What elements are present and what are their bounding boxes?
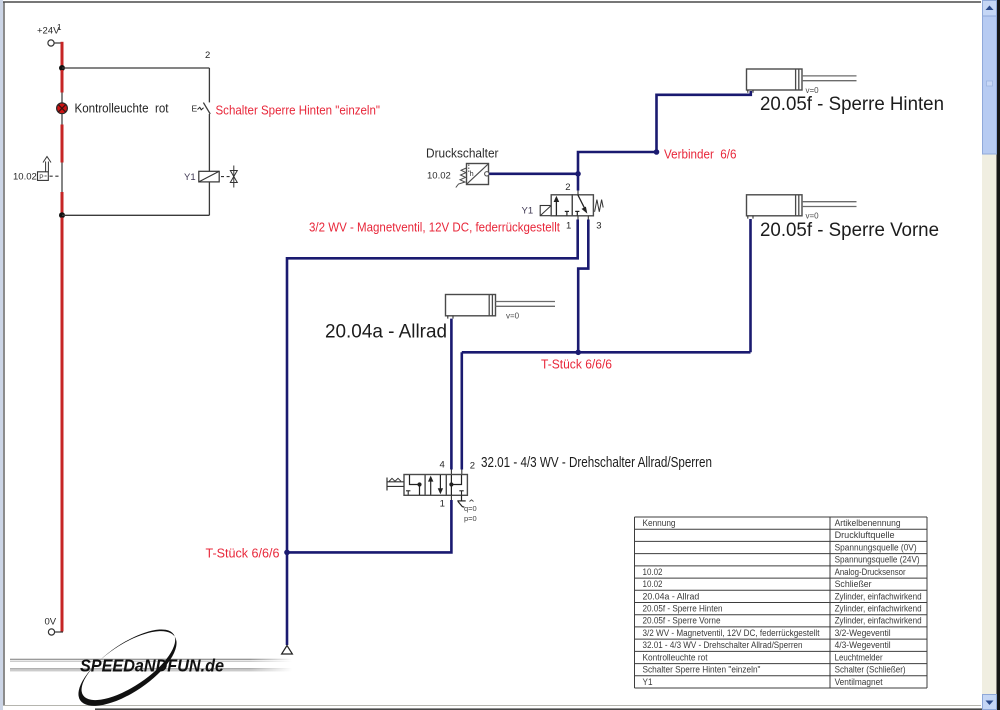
svg-text:Schalter Sperre Hinten "einzel: Schalter Sperre Hinten "einzeln"	[643, 665, 761, 675]
lamp Kontrolleuchte rot	[57, 103, 68, 114]
wire branch vertical upper	[208, 68, 210, 102]
port stub valve43 top4	[450, 470, 452, 475]
wire pneumatic valve port2 up to Verbinder	[578, 152, 657, 191]
svg-text:32.01 - 4/3 WV - Drehschalter: 32.01 - 4/3 WV - Drehschalter Allrad/Spe…	[481, 455, 712, 471]
wire pneumatic valve port3 jog down	[578, 220, 588, 353]
svg-text:Artikelbenennung: Artikelbenennung	[835, 518, 901, 528]
wire pneumatic T-Stueck lower down to exhaust	[286, 552, 289, 645]
svg-text:2: 2	[470, 461, 475, 472]
svg-text:Spannungsquelle (24V): Spannungsquelle (24V)	[835, 555, 920, 565]
svg-text:3/2-Wegeventil: 3/2-Wegeventil	[835, 628, 891, 638]
wire branch vertical lower	[208, 182, 210, 215]
scrollbar track	[982, 0, 997, 710]
wire pneumatic T-Stueck down to valve43 port2	[460, 352, 463, 469]
svg-text:v=0: v=0	[506, 312, 520, 321]
wire pneumatic Verbinder to cylinder Hinten	[657, 91, 751, 152]
svg-text:3/2 WV - Magnetventil, 12V DC,: 3/2 WV - Magnetventil, 12V DC, federrück…	[643, 628, 821, 638]
svg-text:P: P	[39, 174, 43, 181]
logo horizontal line lower	[10, 668, 292, 671]
wire black lamp lead lower	[61, 114, 63, 125]
scrollbar down button	[983, 695, 997, 710]
node T-Stueck 6/6/6 junction dot upper	[575, 350, 581, 356]
wire pneumatic valve43 port1 to T-Stueck lower	[288, 500, 451, 552]
svg-text:20.04a - Allrad: 20.04a - Allrad	[325, 322, 447, 343]
cylinder Vorne piston	[795, 195, 797, 216]
window left edge strip	[0, 0, 3, 710]
svg-text:Y1: Y1	[643, 677, 653, 687]
node junction dot bottom	[59, 212, 65, 218]
pressure switch output port	[485, 172, 489, 176]
svg-text:Schließer: Schließer	[835, 579, 872, 589]
svg-text:3: 3	[596, 221, 601, 232]
wire red supply rail segment 1	[61, 42, 64, 66]
pressure switch 10.02 body	[467, 164, 489, 185]
frame top border	[3, 1, 981, 3]
node T-Stueck 6/6/6 junction dot lower	[284, 550, 290, 556]
svg-text:20.04a - Allrad: 20.04a - Allrad	[643, 591, 700, 601]
parts table grid	[635, 517, 928, 688]
svg-text:Kennung: Kennung	[643, 518, 676, 528]
relay Y1 valve link symbol	[233, 166, 235, 188]
valve 3/2 solenoid box	[540, 206, 551, 216]
valve 4/3 blocked port3 below	[461, 495, 463, 500]
node Verbinder junction dot	[654, 149, 660, 155]
port stub valve43 top2	[461, 470, 463, 475]
svg-text:1: 1	[57, 23, 62, 32]
svg-text:Druckschalter: Druckschalter	[426, 147, 499, 161]
terminal circle 0V	[48, 629, 54, 635]
wire terminal 0V to rail	[55, 631, 63, 633]
cylinder Allrad piston	[488, 295, 490, 316]
svg-text:Kontrolleuchte rot: Kontrolleuchte rot	[75, 102, 169, 116]
scrollbar right dark edge	[997, 0, 1000, 710]
svg-text:10.02: 10.02	[13, 172, 37, 183]
valve 3/2 body right box	[572, 195, 593, 216]
valve 3/2 right box blocked port T	[575, 210, 579, 212]
valve 3/2 left box blocked port T	[565, 210, 569, 212]
pressure switch spring	[456, 168, 467, 188]
svg-text:2: 2	[565, 182, 570, 193]
node junction dot top	[59, 65, 65, 71]
wire pneumatic valve port1 down-left to T-Stueck	[287, 220, 578, 552]
frame left border	[3, 2, 5, 705]
terminal circle +24V	[48, 40, 54, 46]
wire red supply rail segment 5	[61, 218, 64, 632]
wire branch top horizontal	[62, 67, 209, 69]
wire pneumatic T-Stueck horizontal	[462, 351, 751, 354]
wire red supply rail segment 4	[61, 192, 64, 213]
valve 3/2 right box diagonal passage	[578, 195, 585, 208]
cylinder 20.05f Sperre Hinten body	[747, 69, 803, 90]
svg-text:Zylinder, einfachwirkend: Zylinder, einfachwirkend	[835, 616, 922, 626]
relay Y1 dashed link	[221, 176, 231, 178]
valve 4/3 middle cell up arrow	[430, 480, 432, 495]
wire branch vertical middle	[208, 114, 210, 171]
contact 10.02 box	[38, 172, 49, 181]
svg-text:Spannungsquelle (0V): Spannungsquelle (0V)	[835, 542, 917, 552]
wire black contact region	[61, 163, 63, 193]
svg-text:Druckluftquelle: Druckluftquelle	[835, 530, 895, 540]
valve 4/3 left cell blocked T	[406, 490, 410, 492]
svg-text:4: 4	[440, 460, 445, 471]
port stub valve 3/2 bottom 1	[577, 216, 579, 220]
svg-text:E: E	[192, 104, 198, 114]
valve 3/2 body left box	[551, 195, 572, 216]
valve 4/3 body	[404, 475, 467, 496]
svg-text:10.02: 10.02	[643, 579, 663, 589]
cylinder Hinten rod	[802, 75, 857, 77]
svg-text:10.02: 10.02	[643, 567, 663, 577]
cylinder 20.04a Allrad body	[446, 295, 496, 316]
parts table text	[643, 518, 922, 687]
svg-text:Ventilmagnet: Ventilmagnet	[835, 677, 884, 687]
port stub valve 3/2 top	[577, 191, 579, 195]
svg-text:2: 2	[205, 50, 210, 61]
valve 4/3 middle cell down arrow	[439, 475, 441, 490]
port stub valve43 bottom1	[450, 495, 452, 500]
svg-text:20.05f - Sperre Hinten: 20.05f - Sperre Hinten	[643, 604, 723, 614]
valve 4/3 state cursor mark	[458, 502, 464, 508]
valve 3/2 return spring	[595, 200, 604, 212]
scrollbar thumb	[983, 16, 997, 154]
wire black lamp lead upper	[61, 93, 63, 104]
svg-text:0V: 0V	[45, 617, 57, 628]
cylinder Allrad rod	[496, 301, 556, 303]
svg-text:v=0: v=0	[806, 211, 820, 220]
svg-text:Kontrolleuchte rot: Kontrolleuchte rot	[643, 652, 709, 662]
cylinder Vorne port stub	[748, 216, 753, 219]
svg-text:Analog-Drucksensor: Analog-Drucksensor	[835, 567, 906, 577]
svg-text:T-Stück 6/6/6: T-Stück 6/6/6	[541, 358, 612, 372]
svg-text:10.02: 10.02	[427, 171, 451, 182]
svg-text:Leuchtmelder: Leuchtmelder	[835, 652, 883, 662]
wire red supply rail segment 3	[61, 125, 64, 163]
svg-text:p=0: p=0	[464, 514, 477, 523]
svg-text:1: 1	[440, 499, 445, 510]
relay Y1 coil box	[199, 171, 219, 182]
svg-text:Verbinder 6/6: Verbinder 6/6	[664, 147, 737, 161]
switch Schalter Sperre Hinten blade	[203, 103, 210, 114]
scrollbar up button	[983, 1, 997, 17]
cylinder Allrad port stub	[448, 316, 453, 319]
svg-text:T-Stück 6/6/6: T-Stück 6/6/6	[206, 547, 280, 561]
wire pneumatic cylinder Allrad down to valve43 port4	[450, 319, 453, 470]
svg-text:20.05f - Sperre Hinten: 20.05f - Sperre Hinten	[760, 94, 944, 115]
contact 10.02 dashed link	[50, 175, 62, 177]
wire red supply rail segment 2	[61, 70, 64, 93]
cylinder 20.05f Sperre Vorne body	[747, 195, 803, 216]
wire pneumatic T-Stueck up to cylinder Vorne	[749, 219, 752, 352]
window bottom dark line	[95, 708, 996, 710]
contact 10.02 arrow up	[46, 162, 49, 172]
wire pneumatic pressure switch to valve	[489, 173, 578, 176]
valve 4/3 left cell passage	[410, 475, 420, 495]
svg-text:20.05f - Sperre Vorne: 20.05f - Sperre Vorne	[643, 616, 721, 626]
svg-text:Zylinder, einfachwirkend: Zylinder, einfachwirkend	[835, 591, 922, 601]
valve 4/3 hand lever	[386, 478, 388, 491]
wire terminal to supply rail	[54, 42, 62, 44]
svg-text:Y1: Y1	[522, 206, 534, 217]
svg-text:h: h	[470, 169, 474, 178]
svg-text:Zylinder, einfachwirkend: Zylinder, einfachwirkend	[835, 604, 922, 614]
svg-text:Y1: Y1	[184, 172, 196, 183]
svg-text:20.05f - Sperre Vorne: 20.05f - Sperre Vorne	[760, 220, 939, 241]
svg-text:32.01 - 4/3 WV - Drehschalter: 32.01 - 4/3 WV - Drehschalter Allrad/Spe…	[643, 640, 803, 650]
port stub valve 3/2 bottom 3	[587, 216, 589, 220]
svg-text:Schalter Sperre Hinten "einzel: Schalter Sperre Hinten "einzeln"	[216, 104, 381, 118]
svg-text:SPEEDaNDFUN.de: SPEEDaNDFUN.de	[80, 656, 224, 676]
logo ellipse swoosh	[67, 617, 188, 710]
valve 4/3 right cell blocked T	[459, 490, 463, 492]
node junction dot on valve line	[575, 171, 581, 177]
svg-text:Schalter (Schließer): Schalter (Schließer)	[835, 665, 906, 675]
cylinder Hinten piston	[795, 69, 797, 90]
valve 4/3 right cell passage	[451, 475, 461, 495]
frame bottom faint line	[3, 705, 981, 707]
exhaust triangle	[282, 646, 293, 655]
cylinder Vorne rod	[802, 201, 857, 203]
wire branch bottom horizontal	[62, 214, 209, 216]
svg-text:q=0: q=0	[464, 504, 477, 513]
cylinder Hinten port stub	[748, 90, 753, 93]
svg-text:4/3-Wegeventil: 4/3-Wegeventil	[835, 640, 891, 650]
svg-text:1: 1	[566, 221, 571, 232]
svg-text:3/2 WV - Magnetventil, 12V DC,: 3/2 WV - Magnetventil, 12V DC, federrück…	[309, 221, 560, 235]
valve 3/2 left box up arrow	[555, 200, 557, 216]
